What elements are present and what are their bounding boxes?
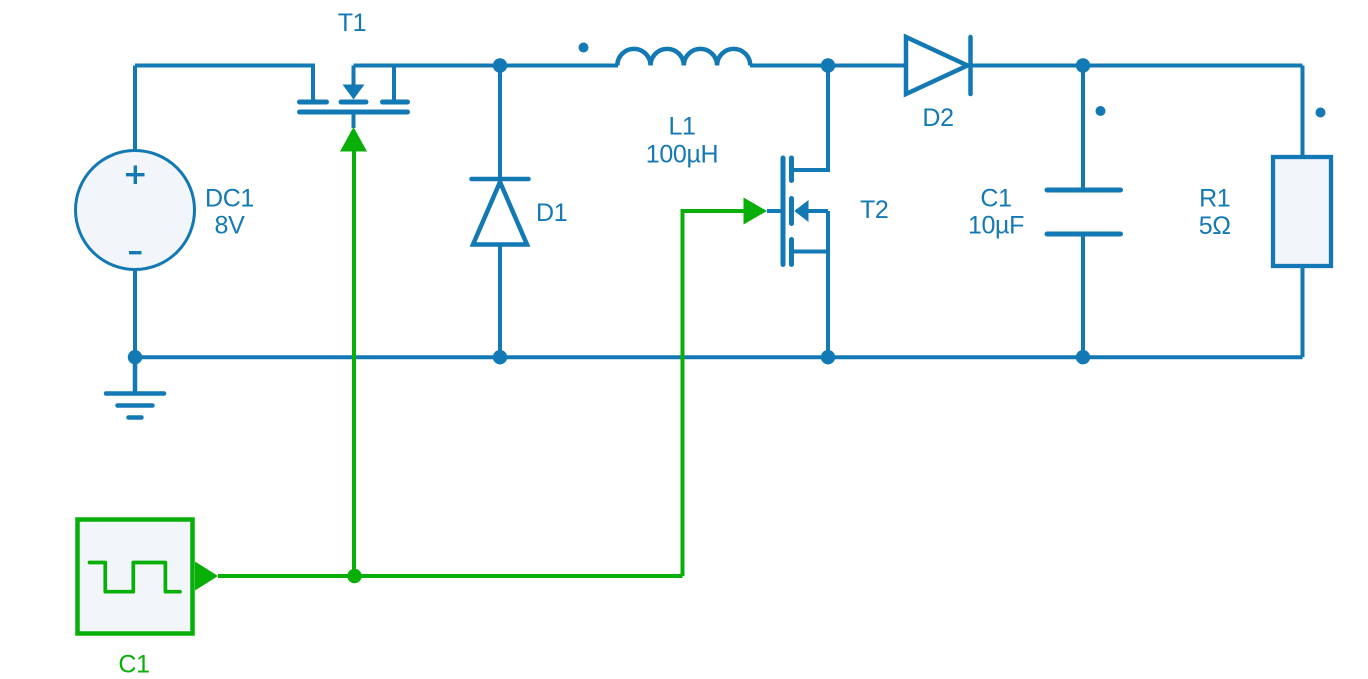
wire: riser from top rail to T2 drain	[793, 66, 828, 171]
node at C1 top	[1076, 58, 1090, 72]
resistor R1	[1273, 157, 1331, 266]
green node: gate branch junction	[347, 569, 361, 583]
capacitor C1	[1047, 190, 1121, 234]
pulse generator waveform	[90, 563, 181, 592]
T1 channel bar left segment	[300, 100, 327, 105]
green wire: branch up to T1 gate	[352, 151, 356, 576]
node at L1/T2 junction	[821, 58, 835, 72]
wire: R1 bottom to bottom rail	[1301, 266, 1305, 357]
T2 channel bar middle segment	[789, 199, 794, 224]
wire: C1 bottom plate to bottom rail	[1081, 234, 1085, 357]
transistor T2 (MOSFET, vertical)	[783, 158, 792, 265]
svg-text:L1: L1	[668, 113, 695, 141]
T1 channel bar right segment	[383, 100, 408, 105]
wire: T2 body/source to bottom rail	[826, 211, 830, 357]
node: C1 bottom junction	[1076, 350, 1090, 364]
resistor R1 polarity dot	[1316, 108, 1326, 118]
node at D1 top	[493, 58, 507, 72]
wire: top-right riser to R1	[1301, 66, 1305, 158]
ground	[106, 357, 164, 417]
node: bottom-left junction	[128, 350, 142, 364]
wire: top rail from L1 to D2 anode	[750, 64, 906, 68]
svg-text:8V: 8V	[215, 212, 246, 240]
svg-text:100µH: 100µH	[646, 141, 718, 169]
svg-text:D1: D1	[536, 199, 567, 227]
wire: DC1 minus terminal to bottom rail	[133, 270, 137, 358]
diode D1	[472, 179, 529, 245]
T2 source stub	[792, 250, 829, 254]
T1 body arrow	[343, 85, 365, 100]
svg-text:D2: D2	[922, 104, 953, 132]
wire: bottom rail	[135, 355, 1303, 359]
svg-text:10µF: 10µF	[968, 212, 1024, 240]
svg-text:T2: T2	[860, 196, 888, 224]
T2 body arrow	[794, 200, 808, 222]
green arrow into T2 gate	[744, 198, 768, 225]
T2 channel bar top segment	[789, 158, 794, 181]
green wire: pulse output horizontal run	[218, 574, 683, 578]
svg-text:5Ω: 5Ω	[1199, 212, 1231, 240]
T1 source stub	[392, 66, 396, 100]
transistor T1 (MOSFET, horizontal)	[300, 102, 408, 112]
node: D1 bottom junction	[493, 350, 507, 364]
svg-text:R1: R1	[1199, 185, 1230, 213]
T1 body stub	[352, 66, 356, 87]
T1 gate bar	[300, 110, 408, 115]
green arrow into T1 gate	[340, 127, 367, 152]
node: T2 source bottom junction	[821, 350, 835, 364]
svg-text:C1: C1	[118, 651, 149, 679]
T1 drain stub	[311, 66, 315, 100]
T2 body stub	[796, 209, 828, 213]
T2 channel bar bottom segment	[789, 240, 794, 265]
DC1 plus sign	[126, 166, 145, 185]
T2 gate lead	[767, 209, 783, 213]
T2 gate bar	[781, 158, 786, 265]
diode D2	[906, 37, 971, 94]
inductor L1	[617, 49, 750, 66]
pulse generator output arrow	[195, 562, 218, 591]
svg-text:DC1: DC1	[205, 185, 254, 213]
pulse generator C1 box	[78, 520, 193, 634]
wire: D1 anode to bottom rail	[498, 245, 502, 358]
inductor L1 polarity dot	[579, 43, 589, 53]
voltage source DC1	[76, 151, 195, 270]
svg-text:C1: C1	[980, 185, 1011, 213]
T1 gate lead	[352, 114, 356, 128]
svg-text:T1: T1	[338, 9, 366, 37]
green wire: run up to T2 gate	[683, 211, 745, 576]
wire: top-left rail from DC1 to T1 drain	[135, 66, 313, 100]
wire: top rail from T1 source to L1	[354, 64, 619, 68]
T1 channel bar middle segment	[341, 100, 366, 105]
wire: DC1 plus terminal riser	[133, 66, 137, 152]
DC1 minus sign	[129, 251, 142, 254]
wire: D2 cathode to top-right corner	[971, 64, 1303, 68]
wire: D1 riser from top rail	[498, 66, 502, 178]
wire: C1 riser from top rail	[1081, 66, 1085, 191]
capacitor C1 polarity dot	[1096, 106, 1106, 116]
